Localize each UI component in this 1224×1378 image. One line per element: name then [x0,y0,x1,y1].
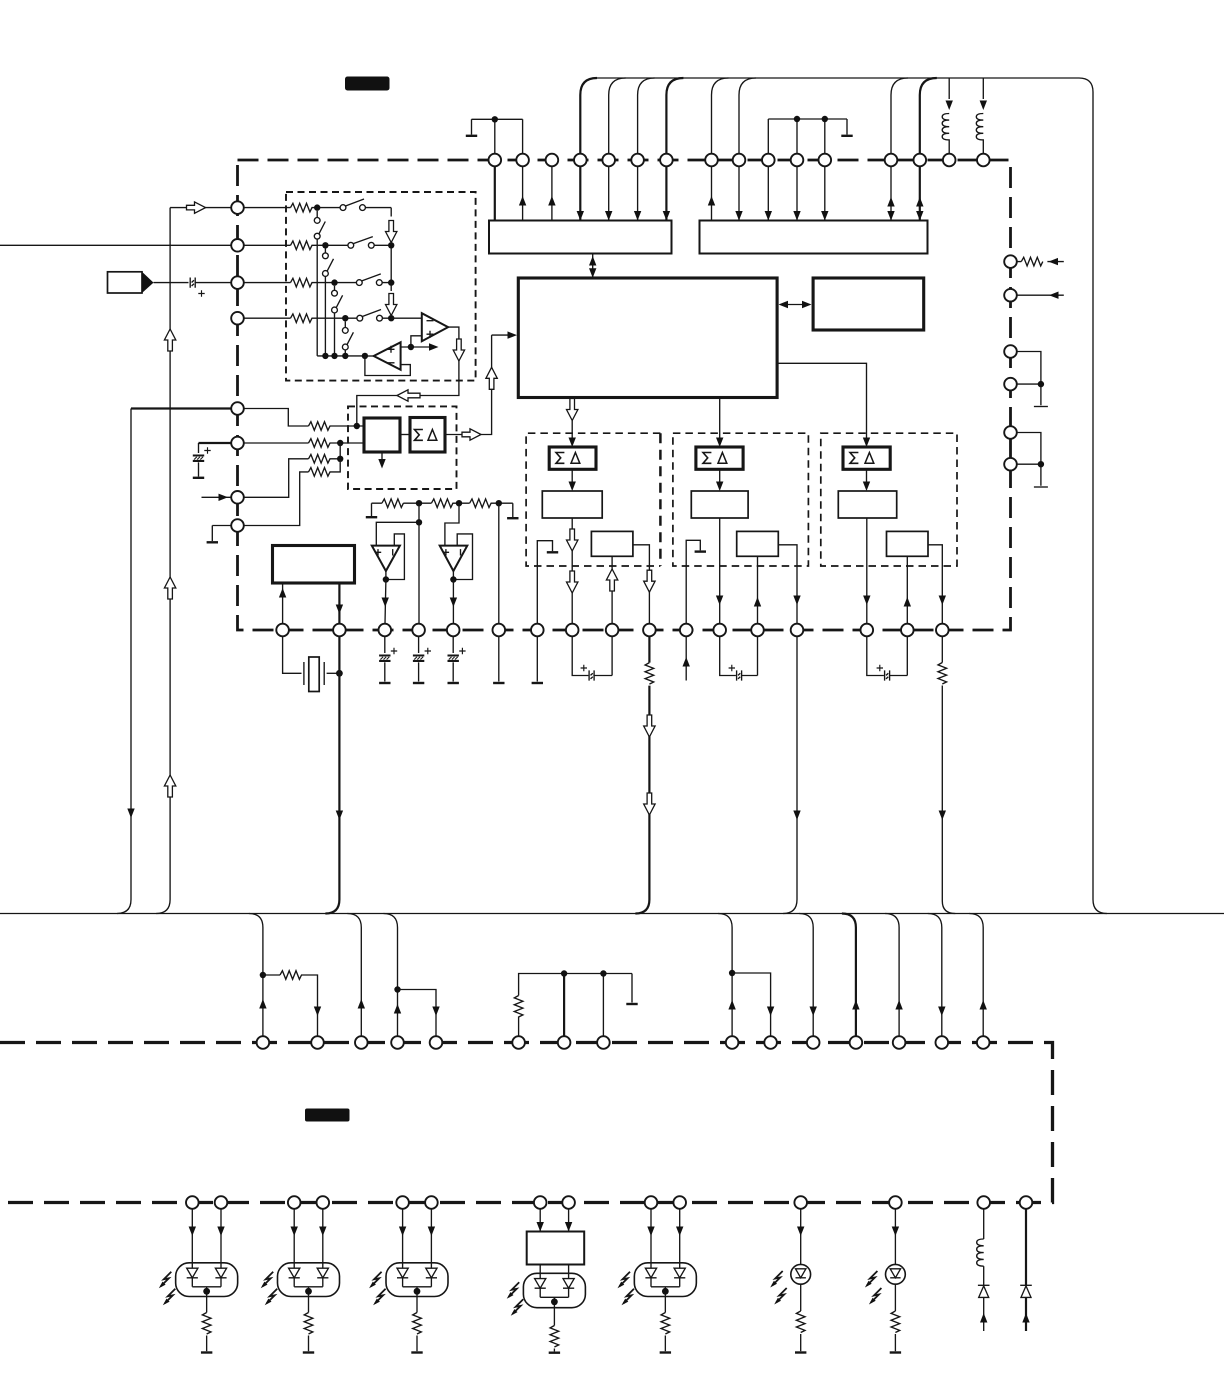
wire: ground pin [498,636,500,681]
wire: supply from bus to IC2 pin1 with resistor branch [249,914,263,1037]
resistor R15 [280,971,302,980]
wire: op-amp U1 + input [401,336,429,347]
light emission arrows [865,1271,878,1288]
capacitor C3 [384,636,386,653]
resistor [796,1311,805,1333]
IC2 dashed boundary box [0,1043,1053,1203]
block: memory block [813,278,924,330]
wire: DAC1 to filter [571,469,573,487]
wire: right pins pair 1 to ground [1017,352,1041,406]
op-amp U4 (headphone amp) [440,546,468,571]
wire: DAC3 driver input from pin [906,556,908,623]
block: PLL/oscillator [273,546,355,584]
light emission arrows [261,1272,274,1289]
block: DAC2 driver [737,531,779,556]
node: top-left decoupling net [472,119,523,160]
wire: bus to IC2 [928,914,942,1037]
wire: DAC1 internal ground from pin [537,541,552,624]
wire: DAC1 driver input from pin [611,556,613,623]
ground [549,1352,560,1354]
wire: row4 to op-amp [391,317,422,319]
block: DAC1 output filter [542,491,602,518]
wire: pull-up network on IC2 [518,1017,520,1037]
wire: DAC2 driver input from pin [757,556,759,623]
wire: tap3 down to pin [498,503,500,624]
wire: DAC3 driver output to pin [928,545,942,624]
wire: DAC2 to filter [719,469,721,487]
resistor R3 [291,278,313,287]
wire: power feed line from pin to bus [131,407,231,409]
block: sigma-delta DAC2 [696,447,743,469]
wire: ground stub at pin [212,526,231,542]
connector CN1 [108,272,143,293]
wire: ADC in row2 [238,442,309,444]
wire: ADC in row1 [238,409,309,427]
wire: U3 output to pin [384,580,387,624]
block: DAC1 driver [591,531,633,556]
resistor [550,1326,559,1348]
inductor L2 [982,78,984,99]
inductor L3 [977,1239,984,1266]
ground [466,135,477,137]
wire [540,1265,568,1279]
wire [651,1209,680,1268]
wire: right pins pair 2 to ground [1017,433,1041,486]
wire bundle curves from IC1 top pins to frame [580,78,597,160]
wire: long return line to bus [156,208,170,914]
ground [890,1352,901,1354]
wire: DAC1 filter output to pin [571,518,573,624]
wire [665,160,667,221]
block: clock/timing block A [489,221,672,254]
wire [403,1209,432,1268]
DAC1 dashed box [526,433,660,566]
wire: bidirectional into block B [890,160,892,221]
wire: bus to IC2 [885,914,899,1037]
wire [312,244,392,246]
ground [841,135,852,137]
wire: ADC output to DSP [445,344,492,435]
signal arrow (hollow) [386,221,397,243]
wire: into DSP with arrow [492,334,513,336]
switch S3 [356,280,362,286]
IC1 pins: bottom edge [276,624,948,637]
block: control register block B [700,221,928,254]
wire: ADC in row3 [238,459,309,498]
resistor R8 [309,468,331,477]
wire [312,282,392,284]
resistor [202,1313,211,1335]
signal arrow (hollow) [164,577,175,599]
IC1 dashed boundary box [238,160,1011,630]
wire [294,1209,323,1268]
wire: sub out to bus [941,636,943,662]
wire: DAC2 filter output to pin [719,518,721,624]
switch S2 [348,242,354,248]
wire [666,78,683,160]
wire: input row 1 from pin [238,207,291,209]
resistor R11 [470,499,492,508]
LED D6 [791,1264,811,1284]
wire [327,672,340,674]
capacitor C7 [720,636,758,675]
resistor R12 [645,663,654,685]
ground [207,541,218,543]
wire: input stub with arrow [202,496,232,498]
op-amp U3 (headphone amp) [372,546,400,571]
wire [800,1209,802,1265]
light emission arrows [618,1272,631,1289]
capacitor C8 [867,636,908,675]
resistor [304,1313,313,1335]
wire: tap1 down to pin [418,522,420,623]
wire [330,443,341,459]
wire [330,459,341,472]
resistor R1 [291,203,313,212]
LED module D2 [278,1263,340,1297]
capacitor C6 [572,636,612,675]
crystal X1 [304,662,324,685]
wire [608,160,610,221]
op-amp U2 (buffer, points left) [374,342,401,370]
wire: tap2 to U4 [445,503,459,545]
ground [660,1352,671,1354]
wire [767,160,769,221]
block: DAC2 output filter [691,491,748,518]
wire: ground pin [536,636,538,681]
block: main DSP core [518,278,777,398]
wire: ADC in row4 [238,472,309,526]
wire: bus branch to two pins [718,914,732,1037]
wire: left IO line to edge [0,244,231,246]
resistor R5 [309,422,331,431]
light emission arrows [770,1271,783,1288]
wire [154,282,189,284]
resistor R6 [309,439,331,448]
wire [920,78,937,160]
wire: DSP to DAC1 [571,398,573,444]
wire: input row 3 from pin [238,282,291,284]
wire: outer frame top and right with rounded corners [597,78,1107,914]
wire [1025,1209,1027,1286]
wire: U2 output to reference bus [365,355,374,357]
DAC2 dashed box [673,433,809,566]
switch S4 [357,315,363,321]
resistor R13 [938,663,947,685]
switch S8 (shunt row4) [342,328,348,334]
resistor [413,1313,422,1335]
wire [609,78,626,160]
wire: U4 feedback [453,534,472,580]
LED module D3 [386,1263,448,1297]
wire [891,78,908,160]
inductor L1 [948,78,950,99]
wire: right edge input [1017,294,1064,296]
resistor [661,1313,670,1335]
signal arrow (hollow) [164,329,175,351]
op-amp U1 [422,313,448,341]
wire [192,1209,221,1268]
wire: master clock down to bus [325,636,339,913]
wire: DAC2 driver output to pin [778,545,797,624]
block: sigma-delta DAC3 [843,447,890,469]
wire: line-out R to bus [783,636,797,913]
wire [540,1209,568,1232]
ground [303,1352,314,1354]
wire: audio return stub [685,636,687,680]
wire [796,160,798,221]
ground [507,517,518,519]
switch S7 (shunt row3) [332,290,338,296]
wire [637,160,639,221]
LED module D4 [523,1273,585,1307]
resistor [891,1311,900,1333]
wire: U3 feedback [386,534,405,580]
wire [824,160,826,221]
wire: U2 feedback loop [365,356,410,376]
wire: DSP to DAC3 [777,363,866,443]
wire [312,317,392,319]
wire: tap1 to U3 [376,503,419,545]
capacitor C4 [418,636,420,653]
wire [894,1209,896,1265]
capacitor C2 (bypass at pin) [199,442,232,444]
wire: bus to IC2 [969,914,983,1037]
wire: AUX in with arrow to pin1 [170,207,231,209]
ADC dashed box [348,406,457,489]
diode D9 [1020,1284,1032,1286]
wire: selector junction column [390,243,392,292]
wire [711,160,713,221]
wire [738,160,740,221]
LED module D5 [634,1263,696,1297]
wire [312,208,392,217]
ground [795,1352,806,1354]
wire [551,160,553,221]
signal arrow (hollow) [453,339,464,361]
wire: DSP to DAC2 [719,398,721,444]
wire: bidirectional block A to DSP [592,254,594,278]
input selector dashed box [286,192,476,381]
wire [579,160,581,221]
wire: line-out L to bus [648,636,650,662]
wire: mute arrow [381,452,383,464]
resistor R2 [291,241,313,250]
signal arrow (hollow) [397,390,420,401]
wire [522,160,524,221]
signal arrow (hollow) [164,775,175,797]
wire [638,78,655,160]
wire: xtal out [338,583,340,624]
capacitor C5 [452,636,454,653]
switch S6 (shunt row2) [323,253,329,259]
resistor R14 [1021,257,1043,266]
block: DAC3 driver [887,531,929,556]
resistor R4 [291,314,313,323]
wire: main cable bus across page [0,913,1224,915]
resistor R9 [382,499,404,508]
LED D7 [886,1264,906,1284]
wire: input row 2 from pin [238,244,291,246]
switch S5 (shunt row1) [314,218,320,224]
IC2 pins: bottom edge [186,1196,1032,1209]
wire [739,78,756,160]
block: LED driver [527,1232,585,1265]
wire: bus to IC2 [842,914,856,1037]
label IC1 (redacted) [345,77,390,91]
wire [983,1209,985,1239]
wire: DAC3 filter output to pin [866,518,868,624]
ground [201,1352,212,1354]
wire [330,442,365,444]
resistor R10 [431,499,453,508]
wire [283,636,302,673]
block: sigma-delta DAC1 [549,447,596,469]
IC1 pins: top edge [489,154,990,167]
wire: selector reference bus [317,355,365,357]
wire [330,425,365,427]
wire: bus to IC2 [347,914,361,1037]
label IC2 (redacted) [305,1109,350,1122]
light emission arrows [507,1282,520,1299]
resistor R7 [309,455,331,464]
resistor R16 [514,996,523,1018]
block: DAC3 output filter [838,491,896,518]
switch S1 [340,205,346,211]
block: sigma-delta ADC [410,418,445,453]
wire [195,282,231,284]
wire: DAC3 to filter [866,469,868,487]
signal arrow (hollow) [386,294,397,316]
wire: right edge reset input with resistor [1017,261,1064,263]
light emission arrows [369,1272,382,1289]
DAC3 dashed box [821,433,957,566]
IC1 pins: right edge [1004,255,1017,470]
wire: xtal in [282,583,284,624]
diode D8 [978,1284,990,1286]
wire: U4 output to pin [452,580,454,624]
IC1 pins: left edge [231,201,244,532]
light emission arrows [159,1272,172,1289]
wire: U1 output down to ADC input [357,327,459,426]
wire: DAC1 driver output to pin [633,545,650,624]
wire: input row 4 from connector line [238,317,291,319]
wire [400,434,410,436]
capacitor C1 (coupling) [190,278,195,288]
wire: bidirectional DSP to memory [781,304,809,306]
wire: pin1 column into block A [494,160,496,221]
block: mic amp (in ADC box) [364,418,400,452]
wire: DAC2 internal ground from pin [686,540,700,623]
LED module D1 [176,1263,238,1297]
IC2 pins: top edge [257,1036,990,1049]
wire: bus to IC2 [799,914,813,1037]
wire [712,78,729,160]
node: top-right decoupling net [768,119,847,160]
wire: reference divider string [372,503,513,517]
ground [411,1352,422,1354]
ground [366,516,377,518]
wire: bidirectional into block B [919,160,921,221]
wire: bus branch to two pins [384,914,398,1037]
